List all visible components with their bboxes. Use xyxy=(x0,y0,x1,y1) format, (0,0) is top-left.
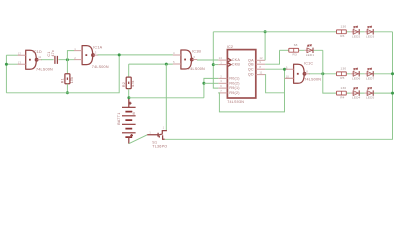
wire node A down to R1 xyxy=(66,60,68,74)
switch S1 top pin xyxy=(162,130,166,133)
wire row2 riser down xyxy=(322,50,324,74)
nand gate IC1A body xyxy=(82,46,93,65)
gate IC1D output pin stub xyxy=(38,59,42,61)
LED LED2 xyxy=(351,26,360,34)
svg-text:130: 130 xyxy=(341,86,347,90)
gate IC1D input pin stubs xyxy=(18,55,26,64)
wire QA riser to LED row 1 xyxy=(264,32,266,61)
svg-text:CKA: CKA xyxy=(232,58,241,62)
IC2 74LS93N counter box xyxy=(227,50,255,98)
svg-text:10: 10 xyxy=(286,75,290,79)
IC2 clock wedge pin 1 xyxy=(228,63,231,67)
svg-text:LED2: LED2 xyxy=(352,34,361,38)
gate IC1D output bubble xyxy=(35,58,38,61)
LED LED7 xyxy=(365,68,374,76)
svg-text:14: 14 xyxy=(219,56,223,60)
svg-text:74LS00N: 74LS00N xyxy=(304,77,321,81)
IC2 pin 1 CKB xyxy=(218,64,227,66)
svg-text:LED3: LED3 xyxy=(366,34,375,38)
svg-text:BATT1: BATT1 xyxy=(117,112,121,124)
wire bottom bus to right riser xyxy=(165,32,393,140)
svg-text:IC1D: IC1D xyxy=(33,50,42,54)
feedback rail wire xyxy=(6,55,119,93)
wire battery junction to IC2 reset xyxy=(129,97,204,99)
gate IC1B output pin stub xyxy=(193,59,197,61)
svg-text:IC1B: IC1B xyxy=(192,50,201,54)
IC2 pin 12 QA xyxy=(256,59,265,61)
svg-text:R2: R2 xyxy=(122,82,126,87)
svg-text:9V: 9V xyxy=(132,111,136,116)
svg-text:LED5: LED5 xyxy=(366,96,375,100)
battery short plates xyxy=(125,112,132,138)
gate IC1C input pin stubs xyxy=(286,69,294,78)
gate IC1A output bubble xyxy=(92,54,95,57)
svg-text:74LS93N: 74LS93N xyxy=(227,100,244,104)
junction CKB tap xyxy=(212,63,215,66)
svg-text:74LS00N: 74LS00N xyxy=(36,67,53,71)
wire node A up to IC1A pin 1 xyxy=(67,51,74,60)
LED LED2 arrows xyxy=(353,26,357,28)
IC1C pin 10 stub xyxy=(285,77,294,79)
junction row3 / right bus xyxy=(391,72,394,75)
wire battery diagonal to switch xyxy=(129,135,147,144)
svg-text:R3: R3 xyxy=(293,53,297,57)
LED LED5 xyxy=(365,87,374,95)
svg-text:LED4: LED4 xyxy=(352,96,361,100)
IC2 pin 9 QB xyxy=(256,63,265,65)
svg-text:11: 11 xyxy=(259,71,262,75)
svg-text:R0(2): R0(2) xyxy=(229,81,239,85)
svg-text:12: 12 xyxy=(18,51,22,55)
gate IC1C output bubble xyxy=(303,73,306,76)
svg-text:10k: 10k xyxy=(70,77,74,84)
resistor R6 value 130 xyxy=(337,30,347,34)
gate IC1C output pin stub xyxy=(306,73,310,75)
svg-text:CKB: CKB xyxy=(232,63,241,67)
IC2 pin 6 R9(1) xyxy=(218,87,227,89)
svg-text:LED1: LED1 xyxy=(306,53,315,57)
gate IC1A input pin stubs xyxy=(74,51,82,60)
junction R1 / rail xyxy=(66,91,69,94)
junction node A xyxy=(66,58,69,61)
svg-text:QD: QD xyxy=(248,73,254,77)
switch S1 contact tick xyxy=(158,136,160,138)
gate IC1A output pin stub xyxy=(94,54,98,56)
LED LED6 xyxy=(351,68,360,76)
capacitor C1 plates xyxy=(55,56,58,64)
gate IC1D inner mark xyxy=(29,59,31,61)
resistor R4 value 130 xyxy=(337,91,347,95)
wire R9(2) loop down to IC1C pin 10 riser xyxy=(218,69,284,112)
wire LED row 2 left segment xyxy=(280,49,289,51)
wire R2 top / IC1B pin 5 xyxy=(129,63,173,65)
svg-text:R1: R1 xyxy=(61,78,65,83)
LED LED4 xyxy=(351,87,360,95)
junction QC / pin10 riser xyxy=(283,68,286,71)
wire R1 to rail xyxy=(66,84,68,93)
svg-text:130: 130 xyxy=(341,25,347,29)
wire CKB tap xyxy=(213,64,218,66)
wire QC to IC1C pin 9 xyxy=(265,68,288,70)
wire QB riser to LED row 2 xyxy=(265,50,279,64)
wire reset net R0(1) xyxy=(204,78,218,97)
LED LED3 xyxy=(365,26,374,34)
wire down to R2 xyxy=(128,64,130,77)
svg-text:IC2: IC2 xyxy=(227,45,233,49)
wire to IC1D pin 12 xyxy=(6,54,17,56)
junction switch riser / pin5 xyxy=(165,63,168,66)
gate IC1B input pin stubs xyxy=(173,55,181,64)
svg-text:LED6: LED6 xyxy=(352,76,361,80)
switch S1 right contact xyxy=(163,135,165,139)
wire left bus vertical xyxy=(5,55,7,93)
wire IC1D output to capacitor C1 xyxy=(41,59,54,61)
switch S1 left pin xyxy=(147,133,158,137)
resistor R2 box xyxy=(126,77,131,89)
gate IC1B output bubble xyxy=(191,58,194,61)
junction left bus / pin13 xyxy=(5,63,8,66)
junction battery top xyxy=(127,96,130,99)
wire row1 R6 to LEDs segments xyxy=(346,31,392,33)
resistor R5 value 130 xyxy=(337,72,347,76)
svg-text:QB: QB xyxy=(248,62,254,66)
svg-text:47k: 47k xyxy=(131,80,135,87)
svg-text:LED7: LED7 xyxy=(366,76,375,80)
battery bottom pin xyxy=(128,137,130,144)
svg-text:130: 130 xyxy=(341,67,347,71)
svg-text:R9(1): R9(1) xyxy=(229,86,239,90)
junction row1 / QA xyxy=(264,30,267,33)
IC2 pin 11 QD xyxy=(256,74,265,76)
LED LED4 arrows xyxy=(353,87,357,89)
svg-text:11: 11 xyxy=(38,55,41,59)
IC2 pin 2 R0(1) xyxy=(218,77,227,79)
svg-text:R6: R6 xyxy=(340,34,344,38)
LED LED6 arrows xyxy=(353,68,357,70)
IC2 clock wedge pin 14 xyxy=(228,58,231,62)
wire IC1B output to IC2 CKA xyxy=(197,59,218,61)
wire switch riser vertical xyxy=(165,64,167,130)
wire row4 segments xyxy=(346,92,392,94)
nand gate IC1B body xyxy=(180,50,191,69)
LED LED7 arrows xyxy=(367,68,371,70)
wire down to row4 xyxy=(323,74,337,93)
resistor R3 value 68 xyxy=(289,48,299,52)
wire QD loop to pin 10 xyxy=(265,75,284,93)
gate IC1B inner mark xyxy=(184,59,186,61)
LED LED5 arrows xyxy=(367,87,371,89)
svg-text:74LS00N: 74LS00N xyxy=(188,67,205,71)
wire R0(2) tap xyxy=(204,82,218,84)
svg-text:68: 68 xyxy=(294,43,298,47)
nand gate IC1C body xyxy=(293,64,304,83)
svg-text:IC1C: IC1C xyxy=(304,61,313,65)
battery plus mark bottom xyxy=(130,134,133,137)
LED LED1 xyxy=(305,45,314,53)
wire IC1C output to row3 xyxy=(309,73,337,75)
svg-text:R9(2): R9(2) xyxy=(229,91,239,95)
junction node B xyxy=(118,53,121,56)
IC2 pin 8 QC xyxy=(256,68,265,70)
resistor R1 box xyxy=(65,74,70,84)
svg-text:74LS00N: 74LS00N xyxy=(92,65,109,69)
wire row3 segments xyxy=(346,73,392,75)
svg-text:IC1A: IC1A xyxy=(93,45,102,49)
wire R2 bottom to battery xyxy=(128,89,130,98)
gate IC1A inner mark xyxy=(85,54,87,56)
switch S1 lever xyxy=(157,134,163,136)
svg-text:R4: R4 xyxy=(340,96,344,100)
wire row2 segments xyxy=(299,49,323,51)
svg-text:TL36PO: TL36PO xyxy=(152,145,167,149)
svg-text:R5: R5 xyxy=(340,76,344,80)
nand gate IC1D body xyxy=(25,50,36,69)
junction R0(2) tap xyxy=(202,82,205,85)
battery long plates xyxy=(122,107,136,133)
wire C1 to node A xyxy=(58,59,74,61)
gate IC1C inner mark xyxy=(297,73,299,75)
wire LED row 1 left segment xyxy=(213,31,336,33)
junction rows 2/3/4 xyxy=(321,72,324,75)
svg-text:47n: 47n xyxy=(51,50,55,57)
IC2 pin 7 R9(2) xyxy=(218,92,227,94)
wire IC1A output to IC1B pin 4 xyxy=(97,54,172,56)
LED LED1 arrows xyxy=(307,45,311,47)
wire QA feedback riser to CKB and R9(1) xyxy=(213,32,218,88)
svg-text:QC: QC xyxy=(248,67,254,71)
junction row4 / right bus xyxy=(391,92,394,95)
battery plus mark top xyxy=(129,102,132,105)
svg-text:R0(1): R0(1) xyxy=(229,77,239,81)
svg-text:13: 13 xyxy=(18,60,22,64)
IC2 pin 14 CKA xyxy=(218,59,227,61)
battery top pin xyxy=(128,99,130,107)
wire to IC1D pin 13 xyxy=(6,63,17,65)
IC2 pin 3 R0(2) xyxy=(218,82,227,84)
LED LED3 arrows xyxy=(367,26,371,28)
